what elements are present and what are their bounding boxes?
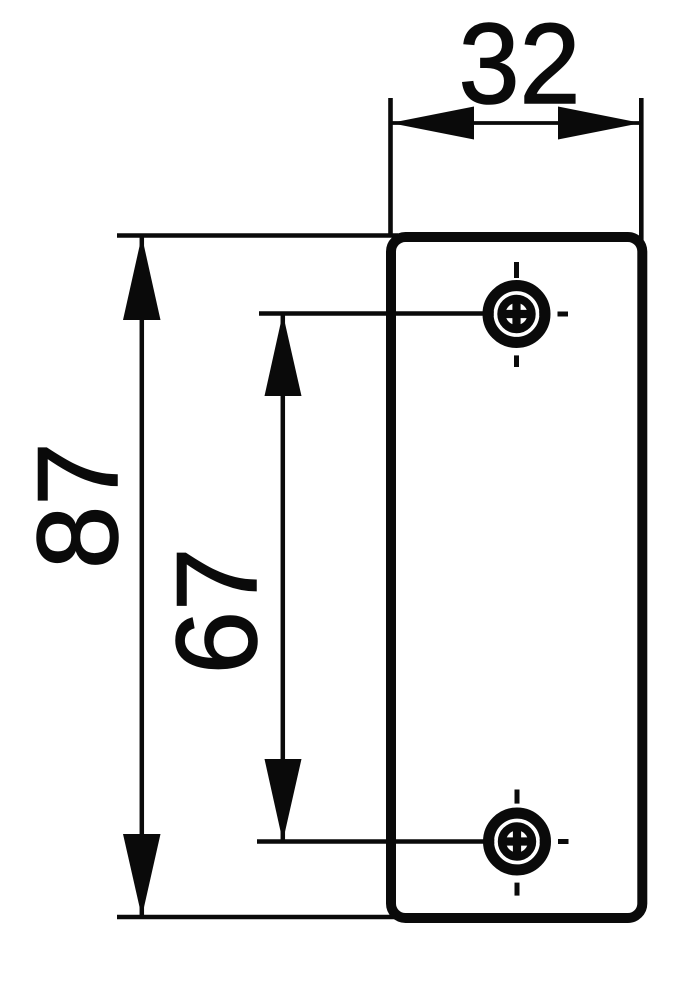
svg-text:67: 67 (154, 548, 281, 675)
svg-text:87: 87 (15, 442, 142, 569)
svg-text:32: 32 (459, 0, 581, 127)
